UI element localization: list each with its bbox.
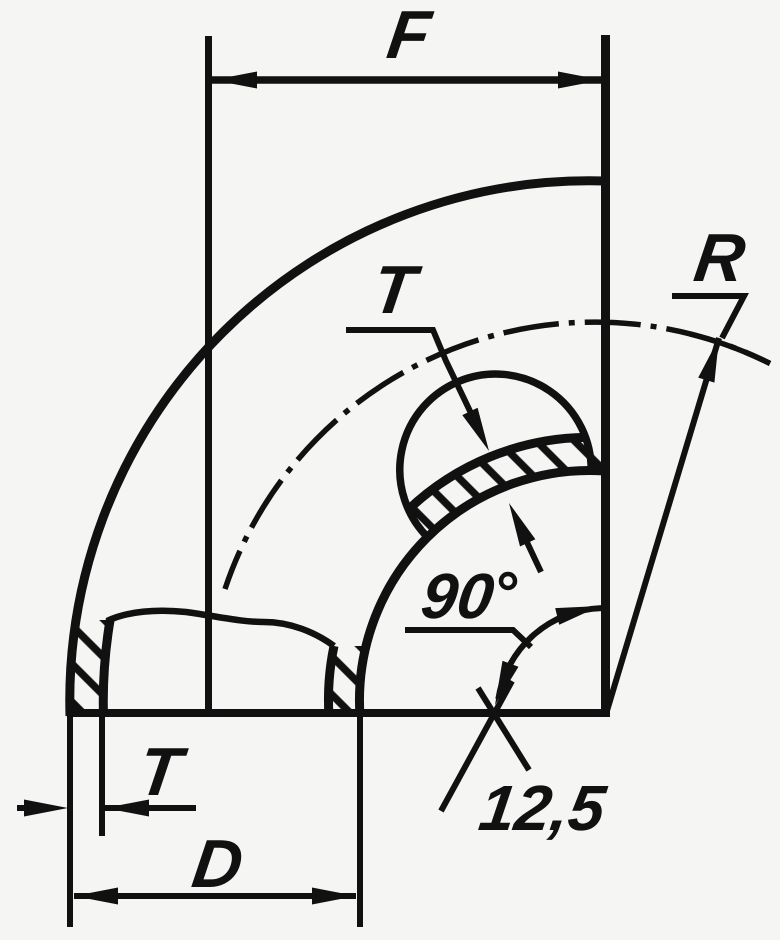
degree circle	[501, 574, 515, 588]
angle top arrow	[555, 606, 600, 625]
T lower arrow shaft	[525, 538, 541, 572]
F right arrow	[558, 72, 602, 89]
left wall bore edge	[103, 620, 110, 716]
right face line	[601, 35, 610, 716]
bore arc in bubble	[408, 437, 585, 509]
wavy break line	[107, 611, 334, 646]
left centerline extension	[205, 36, 212, 713]
breakout bubble	[400, 374, 591, 537]
T lower arrow	[509, 503, 535, 547]
dimension T line left	[17, 805, 30, 811]
left wall hatched section	[70, 620, 110, 713]
bottom extension left	[67, 716, 73, 927]
centerline arc (dash-dot)	[225, 322, 770, 589]
R leader	[672, 296, 744, 338]
D right arrow	[312, 888, 356, 905]
angle bottom arrow	[495, 661, 519, 705]
bottom extension right	[357, 716, 363, 927]
angle arc	[498, 608, 601, 699]
R arrow	[698, 338, 719, 383]
R radial line	[606, 338, 719, 714]
bottom face line	[67, 709, 610, 717]
roughness leader B	[478, 688, 529, 770]
T leader	[346, 330, 480, 432]
svg-text:90: 90	[417, 560, 498, 632]
right wall hatched section	[329, 646, 366, 713]
dimension F line	[208, 76, 606, 84]
dimension T line right	[105, 805, 196, 811]
roughness leader A	[441, 681, 512, 811]
centerline end dash	[690, 334, 770, 364]
dimension D line	[74, 893, 356, 899]
bubble wall hatched section	[408, 437, 605, 537]
outer arc	[70, 181, 605, 716]
inner arc	[359, 470, 605, 716]
90 leader	[405, 630, 531, 647]
T dim right arrow	[105, 800, 149, 817]
T dim left arrow	[24, 800, 68, 817]
bottom extension inner	[99, 716, 105, 836]
right wall bore edge	[328, 646, 334, 716]
T upper arrow	[462, 408, 489, 451]
D left arrow	[74, 888, 118, 905]
svg-text:12,5: 12,5	[475, 772, 611, 844]
F left arrow	[213, 72, 257, 89]
